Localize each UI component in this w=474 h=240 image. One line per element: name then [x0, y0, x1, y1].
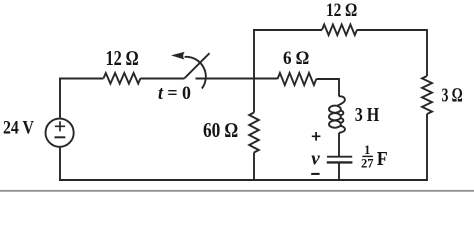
svg-text:12 Ω: 12 Ω [326, 0, 357, 21]
wire: middle vertical from 60ohm resistor to bottom rail [253, 153, 255, 181]
svg-text:3 H: 3 H [355, 104, 380, 126]
switch SW1 (open, blade) [185, 53, 210, 78]
page rule line below figure [0, 190, 474, 192]
switch actuation arc with arrowhead [185, 57, 206, 89]
svg-text:3 Ω: 3 Ω [442, 85, 463, 107]
wire: from 12ohm resistor to switch left terminal [141, 78, 185, 80]
resistor R3 6ohm (series, middle branch) [278, 73, 317, 85]
svg-text:27: 27 [361, 157, 374, 171]
voltage source V1 24V (circle) [46, 119, 74, 147]
wire: bottom horizontal rail [59, 179, 428, 181]
label capacitor voltage minus sign [311, 173, 319, 175]
wire: capacitor bottom plate to bottom rail [338, 164, 340, 181]
svg-text:1: 1 [364, 143, 370, 157]
resistor R4 12ohm (top feedback branch) [322, 25, 357, 36]
label capacitor voltage plus sign [312, 132, 321, 141]
wire: top horizontal rail from middle node to 12ohm top resistor [253, 29, 322, 31]
wire: left vertical from source bottom to bottom-left corner [59, 147, 61, 181]
svg-text:F: F [377, 148, 388, 170]
svg-text:t = 0: t = 0 [158, 83, 191, 104]
wire: from switch right terminal to middle node crossing [196, 78, 278, 80]
wire: left vertical from top corner down to source top [59, 78, 61, 119]
capacitor C1 top plate [327, 156, 352, 158]
svg-text:6 Ω: 6 Ω [283, 48, 309, 69]
voltage source minus terminal mark [55, 136, 66, 138]
wire: inductor bottom to capacitor top plate [338, 133, 340, 156]
wire: right vertical from 3ohm resistor to bottom-right corner [426, 114, 428, 181]
svg-text:v: v [311, 149, 320, 170]
wire: top-left horizontal segment from left corner to 12ohm resistor [59, 78, 103, 80]
inductor L1 3H (coil) [338, 96, 345, 105]
wire: from 6ohm resistor to inductor branch corner [316, 79, 339, 97]
resistor R5 3ohm (right branch) [422, 76, 432, 114]
svg-text:24 V: 24 V [3, 118, 34, 139]
wire: right vertical from top-right corner to 3ohm resistor [426, 29, 428, 76]
resistor R1 12ohm (series, left) [104, 73, 141, 84]
svg-text:60 Ω: 60 Ω [203, 118, 238, 142]
wire: middle vertical from top rail down to 60ohm resistor [253, 29, 255, 112]
svg-text:12 Ω: 12 Ω [106, 46, 139, 70]
voltage source plus terminal mark [55, 121, 65, 131]
capacitor C1 bottom plate [327, 161, 353, 163]
wire: top rail from 12ohm resistor to top-right corner [357, 29, 427, 31]
resistor R2 60ohm (shunt, middle) [249, 113, 259, 153]
